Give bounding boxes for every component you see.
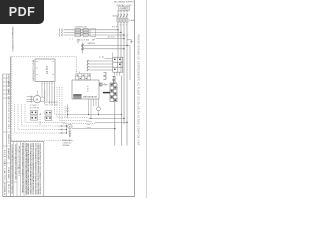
motor label	[30, 105, 39, 109]
vertical riser wire	[44, 90, 46, 104]
relay contact box K2	[31, 111, 38, 115]
svg-text:S D S: S D S	[86, 86, 88, 93]
sensor staircase lead 2	[57, 87, 89, 117]
starter input wire 3	[89, 66, 113, 68]
fan riser dots	[66, 125, 67, 133]
field riser dot	[67, 114, 68, 115]
motor cable chevrons	[30, 96, 32, 103]
controller corner pins	[36, 61, 54, 74]
pole pilot light	[77, 39, 79, 43]
svg-text:7: 7	[126, 24, 127, 26]
main isolator switch poles	[117, 14, 128, 17]
starter input wire 2	[89, 63, 113, 65]
overload relay bracket	[112, 76, 115, 83]
nameplate dense block	[73, 94, 81, 98]
spare stub wires	[87, 121, 93, 127]
svg-text:APP. REF: APP. REF	[7, 91, 10, 102]
starter input wire 4	[89, 69, 113, 71]
drawing frame left border	[10, 57, 12, 197]
4 wires box	[118, 7, 130, 10]
phase bus R	[117, 13, 119, 58]
wire feeder phase 2	[64, 31, 122, 33]
fan feed wire 1	[58, 125, 67, 127]
relay contact marks	[31, 112, 36, 119]
field riser chevrons	[66, 108, 68, 113]
svg-text:400A MCCB: 400A MCCB	[75, 25, 88, 28]
PDF badge	[0, 0, 44, 24]
sensor staircase lead 3	[60, 87, 89, 120]
svg-text:MICRO CONTROLLER: MICRO CONTROLLER	[31, 60, 33, 81]
junction run B	[89, 117, 125, 119]
incoming supply label	[114, 2, 135, 7]
svg-text:POWER WIRING OF 100TR(2X50TR): POWER WIRING OF 100TR(2X50TR) AC PLANT D…	[136, 35, 139, 147]
fuse F3	[123, 18, 125, 22]
fan output run	[72, 128, 115, 130]
aux contact box K4	[45, 111, 52, 115]
panel bottom pin wires	[89, 99, 99, 118]
svg-text:DESCRIPTION OF REV: DESCRIPTION OF REV	[7, 101, 9, 130]
cable marker chevrons	[61, 29, 63, 36]
svg-text:CUSTOMER NAME AND SITE ADDRESS: CUSTOMER NAME AND SITE ADDRESS REFERENCE…	[11, 144, 14, 194]
aux contact marks	[46, 112, 51, 119]
control tap wire 2	[84, 48, 124, 50]
neutral earth tap	[127, 40, 133, 44]
node bus taps	[117, 29, 124, 36]
sensor staircase lead 4	[62, 87, 95, 123]
remote dashed drop 4	[25, 104, 67, 123]
svg-text:5: 5	[123, 24, 124, 26]
fan riser	[66, 124, 68, 133]
fuse wire tags	[117, 24, 127, 26]
wire feeder phase 1	[64, 29, 119, 31]
bus wire number ticks	[117, 35, 128, 37]
terminal hatches	[87, 60, 89, 71]
compressor motor M1	[34, 96, 41, 103]
svg-text:SCREW: SCREW	[30, 108, 39, 110]
plug connector bracket	[103, 72, 106, 79]
notes column lines	[13, 141, 24, 196]
remote dashed drop 3	[22, 104, 59, 126]
svg-text:3C X 25: 3C X 25	[108, 37, 116, 39]
motor top stub	[36, 91, 38, 96]
svg-text:KOLKATA 16: KOLKATA 16	[3, 183, 6, 196]
page right edge	[146, 0, 148, 198]
panel enclosure dashed boundary	[12, 57, 77, 141]
PE thick link	[103, 92, 110, 94]
contactor pins	[115, 72, 120, 75]
fan label	[62, 139, 72, 147]
svg-text:L5: L5	[100, 56, 105, 59]
revision table cell text	[3, 75, 10, 196]
svg-text:BLUE STAR LIMITED: BLUE STAR LIMITED	[3, 150, 6, 180]
fan feed wire 3	[58, 132, 67, 134]
wire tag labels	[45, 102, 59, 106]
current transformer CT1	[97, 107, 101, 111]
fuse F2	[120, 18, 122, 22]
svg-text:6A MCB: 6A MCB	[88, 42, 96, 45]
starter input wire 1	[89, 60, 113, 62]
svg-text:SCALE DATE: SCALE DATE	[7, 167, 10, 180]
wire feeder phase 3	[64, 34, 125, 36]
contactor K1 block	[113, 57, 123, 72]
panel outlet connector	[100, 83, 102, 86]
svg-text:DRG NO.: DRG NO.	[7, 184, 9, 194]
junction run A	[68, 114, 122, 116]
svg-text:3PH 50HZ: 3PH 50HZ	[62, 145, 70, 147]
svg-text:AQ 1B: AQ 1B	[45, 66, 48, 74]
controller bottom pins	[42, 81, 55, 86]
notes area top border	[11, 140, 44, 142]
svg-text:THIS DRAWING IS OUR PROPERTY: THIS DRAWING IS OUR PROPERTY	[11, 26, 14, 53]
junction run C	[95, 121, 127, 123]
supply entry hooks	[117, 10, 128, 13]
svg-text:250A: 250A	[112, 14, 118, 17]
phase bus B	[123, 13, 125, 125]
svg-text:LEGEND: MCCB MOULDED CASE CIRC: LEGEND: MCCB MOULDED CASE CIRCUIT BREAKE…	[21, 143, 24, 194]
neutral bus N	[126, 13, 128, 146]
run junction dots	[88, 114, 128, 123]
svg-text:M: M	[69, 126, 71, 128]
field riser wire	[67, 105, 69, 119]
CT1 drop	[98, 111, 100, 115]
motor feed wires	[27, 97, 34, 102]
starter panel box	[72, 80, 99, 99]
motor M1 terminal arc	[41, 97, 45, 102]
svg-text:4 WIRES: 4 WIRES	[120, 9, 129, 11]
phase bus Y	[120, 13, 122, 73]
fan earth drop	[69, 129, 71, 138]
fan earth hatches	[69, 131, 72, 137]
svg-text:415V AC ± 10%: 415V AC ± 10%	[117, 4, 132, 7]
svg-text:CHECKED BY ENGINEER SIGN DATE: CHECKED BY ENGINEER SIGN DATE REV	[14, 144, 17, 181]
cable tail line	[59, 28, 61, 36]
downfeed wire L	[114, 102, 116, 146]
control return riser	[129, 45, 131, 80]
revision table cell lines	[3, 74, 11, 182]
remote dashed drop 2	[18, 104, 58, 130]
title block outer edge	[2, 74, 4, 196]
svg-text:SOL VLV 24V: SOL VLV 24V	[45, 105, 59, 107]
control tap wire 1	[84, 44, 130, 46]
fuse F4	[126, 18, 128, 22]
svg-text:STAR DELTA STR: STAR DELTA STR	[83, 96, 98, 99]
aux contact box K5	[45, 116, 52, 120]
terminal stack TB2	[110, 83, 117, 102]
svg-text:200A: 200A	[129, 19, 135, 22]
node control taps	[123, 45, 127, 50]
svg-text:L1 L2 L3: L1 L2 L3	[63, 107, 65, 117]
neutral feeder wire	[96, 38, 124, 40]
pin drop wires	[42, 86, 55, 104]
downfeed wire M	[121, 76, 123, 146]
breaker aux block	[90, 29, 96, 37]
L5 wire	[104, 52, 112, 58]
stack top stub	[113, 81, 115, 83]
terminal grid marks	[77, 75, 90, 79]
contactor cell marks	[114, 59, 121, 70]
fuse F1	[117, 18, 119, 22]
terminal strip TB1 grid	[76, 74, 91, 80]
relay contact box K3	[31, 116, 38, 120]
svg-text:INCOMING SUPPLY: INCOMING SUPPLY	[114, 2, 135, 4]
title block inner column line	[6, 74, 8, 196]
earth tick	[92, 38, 95, 41]
svg-text:SHEET 1/2: SHEET 1/2	[7, 134, 9, 145]
fan feed wire 2	[58, 129, 67, 131]
svg-text:DRAWN APP: DRAWN APP	[7, 148, 10, 161]
drawing frame bottom border	[3, 195, 135, 197]
svg-text:L1: L1	[70, 39, 73, 41]
page background	[0, 0, 149, 198]
sensor staircase lead 1	[55, 87, 67, 114]
outlet wire tick	[104, 83, 105, 85]
fan feed chevrons	[61, 125, 63, 134]
controller U1 box	[35, 59, 55, 81]
terminal stack fills	[111, 84, 117, 101]
svg-text:3: 3	[120, 24, 121, 26]
svg-text:R Y B: R Y B	[112, 27, 118, 29]
svg-text:3. CONTROL WIRING WITH 1.5 SQM: 3. CONTROL WIRING WITH 1.5 SQMM CU FLEXI…	[29, 143, 31, 196]
notes area right border	[43, 141, 45, 196]
drawing frame right border	[134, 0, 136, 197]
svg-text:3.5C X 300: 3.5C X 300	[79, 40, 90, 42]
remote dashed drop 1	[15, 104, 59, 133]
fan output dot	[114, 128, 115, 129]
panel outlet wire	[102, 84, 108, 86]
svg-text:PROJECT 100TR DX PLANT UNIT-2: PROJECT 100TR DX PLANT UNIT-2	[18, 146, 21, 177]
control MCB poles	[81, 43, 84, 54]
svg-text:7. MAIN ISOLATOR AND FUSES TO: 7. MAIN ISOLATOR AND FUSES TO BE SUPPLIE…	[39, 143, 42, 196]
neutral feeder dot	[123, 38, 124, 39]
pin stub labels	[41, 82, 55, 84]
condenser fan motor M2	[68, 124, 72, 128]
breaker MCCB-1 body	[75, 29, 88, 37]
